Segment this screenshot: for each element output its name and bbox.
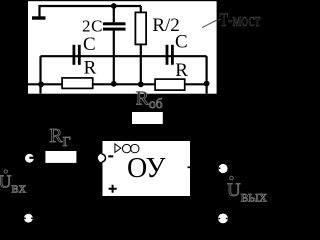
svg-text:C: C: [175, 31, 188, 52]
svg-text:2C: 2C: [82, 17, 103, 36]
svg-text:Т-мост: Т-мост: [220, 11, 261, 31]
svg-text:R: R: [84, 58, 97, 79]
svg-text:R: R: [175, 60, 188, 81]
svg-text:C: C: [83, 34, 96, 55]
svg-text:ОУ: ОУ: [127, 153, 166, 184]
